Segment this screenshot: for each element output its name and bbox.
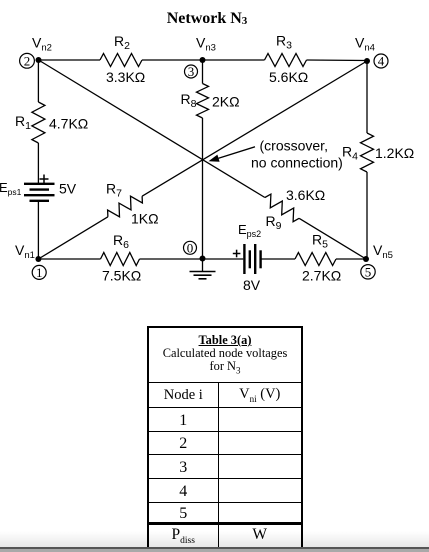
- wire top: R2 to node3: [142, 59, 203, 61]
- resistor R9 body (3.6K): [265, 194, 299, 222]
- plus sign of Eps2: [233, 250, 241, 258]
- svg-text:R3: R3: [276, 33, 292, 52]
- svg-text:2: 2: [24, 54, 31, 69]
- wire diagonal: node2 to R9: [39, 60, 265, 198]
- page bottom edge fade: [0, 531, 429, 547]
- svg-text:1KΩ: 1KΩ: [131, 211, 159, 227]
- svg-text:Eps2: Eps2: [238, 222, 261, 239]
- svg-text:R4: R4: [342, 144, 358, 163]
- wire middle: node3 to R8: [202, 60, 204, 84]
- svg-text:2.7KΩ: 2.7KΩ: [302, 268, 341, 284]
- wire middle: R8 to node0: [202, 118, 204, 259]
- page bottom edge dark line: [0, 547, 429, 549]
- battery Eps2 short plate 2: [259, 250, 261, 268]
- wire diagonal: R9 to node5: [299, 218, 366, 259]
- resistor R7 body (1K): [108, 196, 143, 217]
- table 3(a) calculated node voltages: [147, 326, 303, 549]
- svg-text:3.3KΩ: 3.3KΩ: [106, 69, 145, 85]
- svg-text:Vn4: Vn4: [355, 35, 375, 54]
- node 0 junction dot: [200, 256, 206, 262]
- battery Eps1 long plate 2: [24, 194, 55, 196]
- page bottom edge gray band: [0, 549, 429, 552]
- svg-text:Vn3: Vn3: [196, 35, 216, 54]
- svg-text:R9: R9: [266, 213, 282, 232]
- wire right: node4 to R4: [366, 61, 368, 134]
- resistor R2 body (3.3K): [100, 54, 142, 67]
- svg-text:3: 3: [188, 64, 195, 79]
- battery Eps1 short plate 2: [30, 200, 50, 202]
- battery Eps2 short plate 1: [249, 250, 251, 268]
- battery Eps1 short plate 1: [30, 188, 50, 190]
- svg-text:R2: R2: [114, 33, 130, 52]
- plus sign of Eps1: [40, 175, 49, 184]
- resistor R3 body (5.6K): [265, 54, 307, 67]
- svg-text:2KΩ: 2KΩ: [212, 93, 240, 109]
- ground symbol at node 0: [202, 259, 204, 272]
- arrow pointing to crossover: [219, 147, 256, 158]
- node 1 junction dot: [35, 256, 41, 262]
- battery Eps2 long plate 2: [254, 244, 256, 274]
- svg-text:Eps1: Eps1: [0, 180, 22, 197]
- svg-text:R7: R7: [106, 181, 122, 200]
- svg-text:Vn1: Vn1: [15, 242, 35, 261]
- wire bottom: R5 to node5: [336, 258, 366, 260]
- node label circled 4 (node 4): [374, 54, 388, 69]
- svg-text:R1: R1: [15, 113, 31, 132]
- wire left: node2 to R1: [37, 60, 39, 102]
- wire right: R4 to node5: [366, 172, 368, 259]
- svg-text:(crossover,: (crossover,: [260, 138, 328, 154]
- svg-text:8V: 8V: [243, 277, 261, 293]
- resistor R1 body (4.7K): [32, 102, 45, 143]
- svg-text:5.6KΩ: 5.6KΩ: [269, 69, 308, 85]
- svg-text:5: 5: [365, 265, 372, 280]
- wire diagonal: node1 to R7: [38, 217, 108, 259]
- svg-text:R8: R8: [181, 91, 197, 110]
- node label circled 3 (node 3): [185, 64, 198, 79]
- battery Eps2 long plate 1: [243, 244, 245, 274]
- wire top: R3 to node4: [307, 59, 368, 62]
- svg-text:1.2KΩ: 1.2KΩ: [375, 145, 414, 161]
- wire bottom: R6 to Eps2: [140, 258, 244, 260]
- svg-text:0: 0: [187, 241, 194, 256]
- wire bottom: Eps2 to R5: [261, 258, 295, 260]
- node label circled 2 (node 2): [20, 53, 35, 68]
- node label circled 1 (node 1): [32, 265, 46, 280]
- wire left: R1 to Eps1: [37, 143, 39, 183]
- svg-text:3.6KΩ: 3.6KΩ: [286, 187, 325, 203]
- svg-text:Vn5: Vn5: [373, 242, 393, 261]
- node 4 junction dot: [364, 58, 370, 64]
- wire top: node3 to R3: [203, 59, 265, 61]
- wire bottom: node1 to R6: [38, 258, 100, 260]
- resistor R5 body (2.7K): [295, 253, 336, 266]
- node label circled 5 (node 5): [361, 265, 375, 280]
- svg-text:7.5KΩ: 7.5KΩ: [102, 268, 141, 284]
- wire left: Eps1 to node1: [37, 201, 39, 259]
- wire diagonal: R7 to node4: [142, 61, 367, 196]
- node 3 junction dot: [200, 57, 206, 63]
- svg-text:Vn2: Vn2: [32, 35, 52, 54]
- node 2 junction dot: [36, 57, 42, 63]
- svg-text:4: 4: [378, 54, 385, 69]
- resistor R8 body (2K): [197, 84, 209, 119]
- node label circled 0 (node 0): [184, 241, 197, 256]
- node 5 junction dot: [363, 256, 369, 262]
- resistor R6 body (7.5K): [101, 253, 140, 266]
- wire top: node2 to R2: [39, 59, 101, 61]
- svg-text:1: 1: [36, 265, 43, 280]
- svg-text:R6: R6: [113, 232, 129, 251]
- svg-text:5V: 5V: [59, 180, 77, 196]
- resistor R4 body (1.2K): [361, 133, 374, 172]
- title Network N3: [0, 10, 414, 28]
- svg-text:no connection): no connection): [251, 155, 343, 171]
- svg-text:4.7KΩ: 4.7KΩ: [49, 116, 88, 132]
- battery Eps1 long plate 1: [24, 183, 55, 185]
